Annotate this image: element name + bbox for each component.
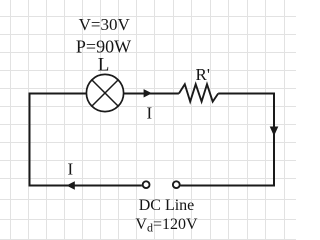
current arrow I left (bottom wire) (66, 181, 74, 189)
label V=30V (79, 15, 131, 34)
svg-text:L: L (98, 54, 110, 75)
label I (bottom current) (67, 160, 73, 179)
svg-text:I: I (146, 104, 152, 123)
wire resistor to right corner and down to terminal (180, 94, 274, 186)
svg-text:I: I (67, 160, 73, 179)
svg-text:DC Line: DC Line (139, 197, 195, 214)
lamp L (86, 74, 123, 111)
svg-text:V=30V: V=30V (79, 15, 131, 34)
terminal right (173, 181, 180, 188)
svg-text:R': R' (195, 65, 209, 84)
terminal left (143, 181, 150, 188)
resistor R' (179, 84, 218, 101)
wire top-left segment (30, 94, 142, 186)
svg-text:Vd=120V: Vd=120V (135, 216, 198, 235)
label L (98, 54, 110, 75)
label R' (195, 65, 209, 84)
current arrow I right (after lamp) (144, 89, 152, 97)
label Vd=120V (135, 216, 198, 235)
label I (top current) (146, 104, 152, 123)
label P=90W (76, 37, 131, 57)
wire lamp to resistor (124, 93, 179, 95)
current arrow down (right branch) (270, 127, 279, 137)
label DC Line (139, 197, 195, 214)
